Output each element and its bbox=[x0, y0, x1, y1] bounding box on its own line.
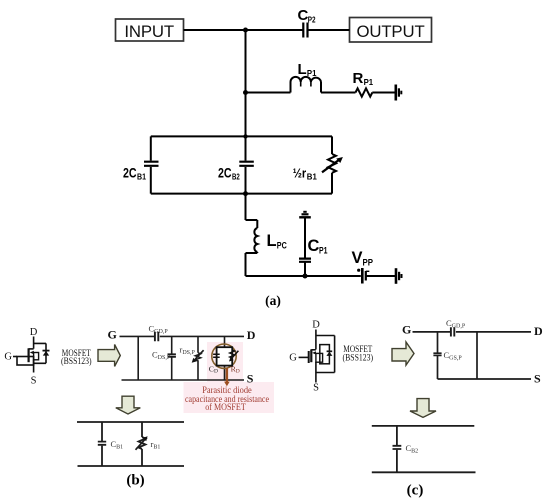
svg-text:½r: ½r bbox=[293, 165, 307, 180]
svg-text:OUTPUT: OUTPUT bbox=[356, 22, 424, 41]
svg-text:rDS,P: rDS,P bbox=[180, 345, 196, 357]
svg-text:G: G bbox=[402, 323, 411, 337]
svg-text:PC: PC bbox=[277, 241, 287, 251]
svg-text:PP: PP bbox=[363, 258, 374, 268]
svg-text:S: S bbox=[313, 383, 319, 394]
svg-text:CB1: CB1 bbox=[111, 439, 124, 451]
svg-text:C: C bbox=[308, 237, 320, 255]
svg-text:D: D bbox=[30, 327, 38, 338]
svg-text:(BSS123): (BSS123) bbox=[61, 356, 92, 366]
svg-text:B1: B1 bbox=[137, 172, 146, 181]
svg-text:CGS,P: CGS,P bbox=[444, 350, 463, 362]
svg-text:(b): (b) bbox=[126, 473, 144, 489]
svg-text:G: G bbox=[108, 328, 117, 342]
svg-text:S: S bbox=[247, 371, 254, 385]
svg-text:CDS,P: CDS,P bbox=[152, 350, 171, 362]
svg-text:P1: P1 bbox=[364, 78, 374, 87]
svg-text:P1: P1 bbox=[307, 69, 317, 78]
svg-text:G: G bbox=[4, 352, 12, 363]
svg-text:(a): (a) bbox=[265, 293, 281, 308]
svg-text:P2: P2 bbox=[308, 16, 316, 25]
svg-text:CB2: CB2 bbox=[406, 443, 419, 455]
svg-text:D: D bbox=[534, 324, 543, 338]
svg-text:L: L bbox=[267, 232, 277, 250]
svg-text:CGD,P: CGD,P bbox=[446, 318, 466, 330]
svg-text:B2: B2 bbox=[232, 172, 240, 181]
svg-text:L: L bbox=[298, 61, 307, 78]
svg-text:(BSS123): (BSS123) bbox=[343, 352, 374, 362]
svg-text:S: S bbox=[31, 376, 37, 387]
svg-text:R: R bbox=[353, 70, 364, 87]
svg-text:INPUT: INPUT bbox=[124, 22, 174, 41]
svg-text:B1: B1 bbox=[307, 172, 317, 181]
svg-text:CGD,P: CGD,P bbox=[149, 324, 169, 336]
svg-text:rB1: rB1 bbox=[151, 439, 161, 451]
svg-text:S: S bbox=[534, 371, 541, 385]
svg-text:(c): (c) bbox=[407, 483, 424, 499]
svg-text:V: V bbox=[352, 249, 363, 267]
svg-text:D: D bbox=[312, 320, 320, 331]
svg-text:G: G bbox=[289, 353, 297, 364]
svg-text:of MOSFET: of MOSFET bbox=[205, 402, 246, 412]
svg-text:2C: 2C bbox=[123, 164, 137, 180]
svg-text:2C: 2C bbox=[218, 164, 232, 180]
svg-text:P1: P1 bbox=[319, 246, 328, 256]
svg-text:D: D bbox=[247, 328, 256, 342]
